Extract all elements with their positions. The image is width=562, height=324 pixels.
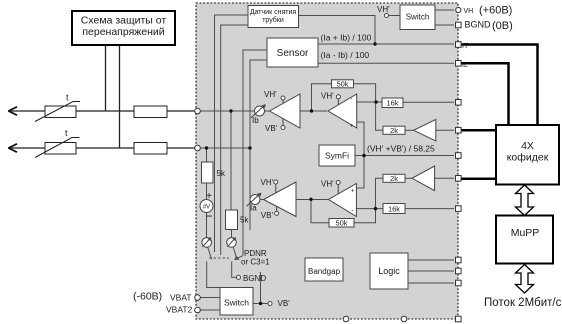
- svg-text:50k: 50k: [335, 219, 347, 228]
- svg-text:SymFi: SymFi: [325, 151, 349, 161]
- svg-text:-: -: [351, 97, 353, 103]
- svg-text:VH': VH': [321, 92, 334, 101]
- svg-text:-: -: [352, 208, 354, 214]
- svg-text:(-60В): (-60В): [133, 291, 162, 303]
- svg-text:MuPP: MuPP: [511, 227, 540, 239]
- svg-text:Ia: Ia: [250, 204, 257, 213]
- svg-text:+: +: [206, 191, 212, 202]
- svg-text:(Ia - Ib) / 100: (Ia - Ib) / 100: [321, 50, 370, 60]
- svg-text:Датчик снятия: Датчик снятия: [250, 9, 297, 16]
- svg-text:Logic: Logic: [378, 266, 400, 276]
- svg-text:Sensor: Sensor: [277, 48, 309, 59]
- svg-text:2k: 2k: [390, 126, 398, 135]
- svg-text:VBAT: VBAT: [170, 293, 192, 303]
- svg-text:5k: 5k: [240, 216, 249, 225]
- svg-text:(+60В): (+60В): [479, 5, 512, 17]
- svg-text:VBAT2: VBAT2: [166, 305, 193, 315]
- svg-text:Switch: Switch: [224, 298, 249, 308]
- svg-text:трубки: трубки: [262, 16, 284, 24]
- svg-text:5k: 5k: [217, 169, 226, 178]
- svg-text:кофидек: кофидек: [507, 152, 549, 164]
- svg-text:2k: 2k: [390, 174, 398, 183]
- svg-text:VB': VB': [265, 124, 278, 133]
- svg-text:+: +: [350, 124, 354, 130]
- svg-text:VH': VH': [264, 90, 277, 99]
- svg-text:(0В): (0В): [492, 20, 513, 32]
- svg-text:VB': VB': [278, 299, 291, 308]
- svg-text:Switch: Switch: [406, 13, 430, 22]
- svg-text:16k: 16k: [386, 98, 398, 107]
- svg-text:VH': VH': [377, 5, 390, 14]
- svg-text:50k: 50k: [336, 79, 348, 88]
- svg-text:16k: 16k: [388, 204, 400, 213]
- svg-text:4X: 4X: [521, 140, 534, 152]
- svg-text:VH: VH: [464, 8, 474, 15]
- svg-text:(VH' +VB') / 58,25: (VH' +VB') / 58,25: [367, 144, 435, 154]
- svg-text:VH': VH': [261, 178, 274, 187]
- svg-text:(Ia + Ib) / 100: (Ia + Ib) / 100: [321, 33, 372, 43]
- svg-text:перенапряжений: перенапряжений: [82, 26, 164, 38]
- svg-text:VB': VB': [261, 211, 274, 220]
- svg-text:BGND: BGND: [243, 274, 266, 283]
- svg-text:−: −: [205, 209, 212, 223]
- svg-text:IL: IL: [462, 62, 468, 69]
- svg-text:VH': VH': [321, 179, 334, 188]
- svg-text:or C3=1: or C3=1: [241, 258, 270, 267]
- svg-text:Bandgap: Bandgap: [308, 267, 341, 276]
- svg-text:Поток 2Мбит/с: Поток 2Мбит/с: [484, 297, 562, 309]
- svg-text:Схема защиты от: Схема защиты от: [81, 15, 167, 27]
- svg-text:IT: IT: [462, 43, 469, 50]
- svg-text:BGND: BGND: [465, 20, 492, 30]
- svg-text:+: +: [351, 189, 355, 195]
- svg-text:Ib: Ib: [252, 116, 259, 125]
